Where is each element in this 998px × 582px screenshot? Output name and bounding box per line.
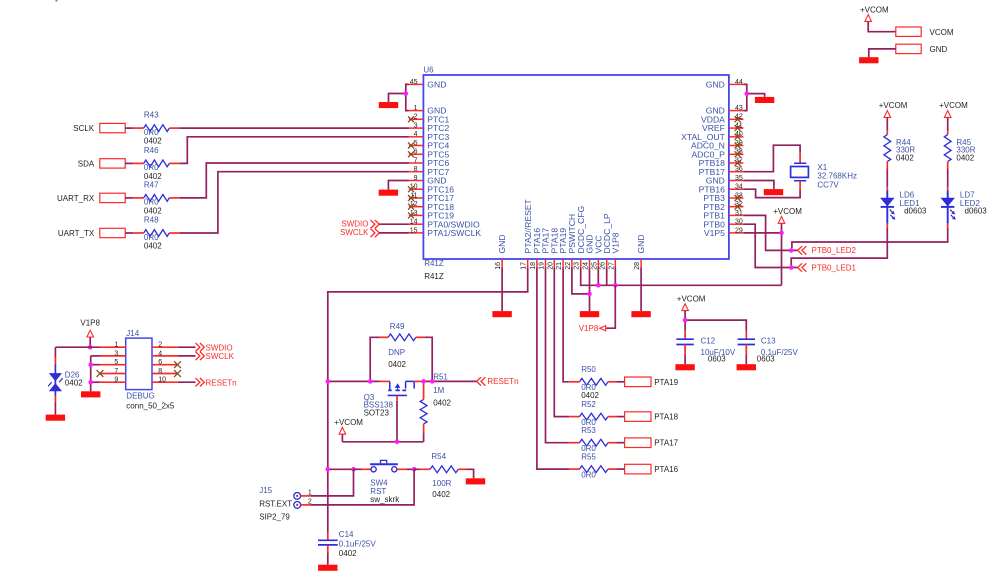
port UART_RX (57, 193, 125, 203)
power symbol +VCOM (Q3) (334, 418, 363, 434)
ground (J14) (81, 391, 100, 397)
svg-text:DNP: DNP (388, 348, 405, 357)
U6 pin 31 PTB1 (703, 210, 743, 221)
svg-text:22: 22 (565, 262, 572, 270)
capacitor C13 0.1uF/25V (738, 331, 799, 365)
U6 pin 23 DCDC_CFG (574, 205, 586, 269)
J15 labels (259, 486, 292, 521)
svg-text:C12: C12 (701, 337, 716, 346)
junction rail/node (326, 379, 331, 384)
U6 pin 32 PTB2 (703, 201, 743, 212)
resistor R54 100R (414, 452, 474, 499)
svg-text:RST.EXT: RST.EXT (259, 499, 292, 508)
svg-text:SWCLK: SWCLK (206, 352, 235, 361)
wire bottom +VCOM rail (pins 23,25,26,27) (581, 268, 782, 286)
J14 pin 6 (152, 359, 178, 366)
U6 pin 25 VCC (591, 235, 603, 269)
resistor R45 330R (944, 135, 975, 163)
power symbol V1P8 (J14) (80, 318, 100, 337)
U6 pin 35 GND (706, 175, 744, 186)
svg-text:9: 9 (414, 175, 418, 182)
svg-text:+VCOM: +VCOM (939, 101, 968, 110)
wire LD7 cathode to PTB0_LED2 (792, 228, 948, 248)
wire +VCOM rail to U6 pin 29 and bottom rail (781, 223, 783, 285)
junction V1P5 (779, 231, 784, 236)
svg-text:PTA1/SWCLK: PTA1/SWCLK (427, 228, 481, 238)
wire U6 pin 16 to ground (501, 268, 503, 312)
speck (55, 0, 57, 2)
wire LD6 cathode to PTB0_LED1 (791, 228, 887, 265)
LED LD7 (941, 187, 987, 229)
svg-text:R41Z: R41Z (424, 272, 444, 281)
svg-text:0603: 0603 (708, 355, 726, 364)
U6 pin 6 PTC5 (408, 149, 449, 160)
svg-text:1M: 1M (433, 386, 444, 395)
svg-text:V1P5: V1P5 (704, 228, 725, 238)
crystal X1 (791, 163, 857, 189)
svg-text:+VCOM: +VCOM (860, 5, 889, 14)
U6 pin 42 VDDA (701, 114, 743, 125)
net label RESETn (Q3 node) (477, 377, 519, 386)
wire U6 pin 22 PSWITCH to pin 24 (572, 268, 590, 294)
junction PTB0_LED2 (789, 248, 794, 253)
ground (U6 pin44/43) (755, 97, 774, 103)
power symbol +VCOM (V1P5 rail) (773, 207, 802, 223)
port PTA19 (625, 377, 679, 387)
svg-text:34: 34 (735, 184, 743, 191)
svg-text:1: 1 (114, 342, 118, 349)
U6 pin 22 PSWITCH (565, 214, 577, 270)
U6 pin 45 GND (409, 79, 447, 90)
svg-text:0402: 0402 (581, 391, 599, 400)
svg-text:V1P8: V1P8 (610, 232, 620, 253)
U6 pin 34 PTB16 (699, 184, 744, 195)
U6 pin 43 GND (706, 105, 744, 116)
U6 pin 40 XTAL_OUT (681, 131, 743, 142)
U6 pin 14 PTA0/SWDIO (409, 219, 480, 230)
svg-text:R41Z: R41Z (424, 259, 444, 268)
svg-text:PTB0_LED1: PTB0_LED1 (812, 263, 857, 272)
net label SWCLK (J14 pin4) (196, 352, 235, 361)
svg-text:d0603: d0603 (965, 207, 988, 216)
U6 pin 29 V1P5 (704, 227, 744, 238)
svg-text:VCOM: VCOM (930, 28, 954, 37)
wire +VCOM to C12/C13 (684, 311, 686, 331)
svg-text:6: 6 (158, 359, 162, 366)
U6 pin 24 GND (583, 234, 595, 269)
net label RESETn (J14 pin10) (196, 378, 237, 387)
wire V1P8 to J14 pin1 row (89, 337, 91, 347)
wire U6 pin 9 to ground (388, 181, 409, 190)
ground (C12) (675, 364, 694, 370)
svg-text:0603: 0603 (757, 355, 775, 364)
svg-text:0402: 0402 (144, 207, 162, 216)
svg-text:16: 16 (495, 262, 502, 270)
resistor R44 330R (884, 135, 915, 163)
svg-text:5: 5 (114, 359, 118, 366)
U6 pin 17 PTA2//RESET (521, 198, 533, 269)
svg-text:0402: 0402 (896, 154, 914, 163)
wire U6 pin 36 to X1 top (743, 145, 800, 172)
svg-text:RESETn: RESETn (206, 378, 237, 387)
junction J14 pin5 (88, 362, 93, 367)
ground (U6 pin 24) (580, 311, 599, 317)
wire U6 pin 35 to ground (743, 181, 774, 190)
svg-text:19: 19 (539, 262, 546, 270)
svg-text:0R0: 0R0 (144, 198, 159, 207)
junction pin22/24 (587, 292, 592, 297)
U6 pin 28 GND (634, 234, 646, 269)
U6 pin 16 GND (495, 234, 507, 269)
svg-text:C13: C13 (761, 337, 776, 346)
svg-text:PTA17: PTA17 (654, 439, 678, 448)
svg-text:8: 8 (158, 368, 162, 375)
svg-text:PTA18: PTA18 (654, 413, 678, 422)
svg-text:27: 27 (608, 262, 615, 270)
svg-text:6: 6 (414, 149, 418, 156)
svg-text:24: 24 (583, 262, 590, 270)
svg-text:0402: 0402 (388, 360, 406, 369)
svg-text:PTA19: PTA19 (654, 378, 678, 387)
svg-text:R50: R50 (581, 365, 596, 374)
svg-text:44: 44 (735, 79, 743, 86)
resistor R50 0R0 (569, 365, 624, 400)
wire SWCLK to U6 pin 15 (379, 232, 409, 234)
svg-text:R52: R52 (581, 400, 596, 409)
svg-text:+VCOM: +VCOM (773, 207, 802, 216)
junction V1P8/pin1 (88, 345, 93, 350)
op IC U6 body (423, 66, 729, 260)
port SCLK (73, 123, 125, 133)
J14 pin 8 (152, 368, 178, 375)
junction R49 left / Q3 (368, 379, 373, 384)
ground (U6 pin 16) (492, 311, 511, 317)
wire R44 to LD6 (886, 162, 888, 169)
resistor R43 (125, 111, 179, 146)
svg-text:25: 25 (591, 262, 598, 270)
svg-text:30: 30 (735, 219, 743, 226)
J14 pin 10 (152, 377, 178, 384)
wire VCOM arrow to port (868, 21, 896, 31)
wire U6 pin 17 RESET rail (328, 268, 528, 533)
no-connect J14 pin 7 (97, 370, 104, 377)
svg-text:21: 21 (556, 262, 563, 270)
wire UART_RX/R47 to U6 pin 7 (180, 163, 409, 198)
LED LD6 (881, 187, 927, 229)
wire U6 pin 28 to ground (640, 268, 642, 312)
ground (top right) (859, 57, 878, 63)
svg-text:GND: GND (706, 80, 725, 90)
junction R49 right (430, 379, 435, 384)
U6 pin 38 ADC0_P (691, 149, 743, 160)
svg-text:GND: GND (427, 80, 446, 90)
junction J15 pin2 (412, 467, 417, 472)
wire U6 pin 24 to ground (589, 268, 591, 312)
svg-text:SOT23: SOT23 (364, 409, 390, 418)
svg-text:V1P8: V1P8 (579, 324, 599, 333)
svg-text:d0603: d0603 (904, 207, 927, 216)
port VCOM (896, 27, 954, 37)
value label R41Z (424, 259, 444, 268)
svg-text:15: 15 (410, 227, 418, 234)
svg-text:10: 10 (158, 377, 166, 384)
wire U6 pin 30 to PTB0_LED1 (743, 224, 797, 267)
connector J15 pin 2 (294, 498, 312, 508)
J14 pin 9 (100, 377, 126, 384)
svg-text:R55: R55 (581, 452, 596, 461)
U6 pin 30 PTB0 (703, 219, 743, 230)
resistor R49 DNP (370, 322, 432, 382)
wire U6 pins 44,43 to ground (743, 84, 746, 110)
U6 pin 27 V1P8 (608, 232, 620, 270)
no-connect J14 pin 8 (174, 370, 181, 377)
junction PTB0_LED1 (789, 265, 794, 270)
svg-text:CC7V: CC7V (817, 180, 839, 189)
svg-text:+VCOM: +VCOM (334, 418, 363, 427)
U6 pin 7 PTC6 (409, 157, 450, 168)
svg-text:conn_50_2x5: conn_50_2x5 (126, 402, 175, 411)
svg-text:J14: J14 (126, 329, 139, 338)
svg-text:7: 7 (114, 368, 118, 375)
U6 pin 9 GND (409, 175, 447, 186)
port PTA16 (625, 464, 679, 474)
ground (U6 pin45/1) (379, 102, 398, 108)
svg-text:0R0: 0R0 (581, 470, 596, 479)
svg-text:GND: GND (636, 234, 646, 253)
svg-text:SDA: SDA (78, 160, 95, 169)
U6 pin 8 PTC7 (409, 166, 450, 177)
net label SWDIO (J14 pin2) (196, 343, 233, 352)
U6 pin 21 PTA19 (556, 228, 568, 270)
port UART_TX (58, 228, 125, 238)
U6 pin 19 PTA17 (539, 228, 551, 270)
svg-text:14: 14 (410, 219, 418, 226)
svg-text:0402: 0402 (144, 242, 162, 251)
U6 pin 2 PTC1 (408, 114, 449, 125)
wire SDA/R46 to U6 pin 4 (180, 137, 409, 164)
svg-text:R51: R51 (433, 373, 448, 382)
svg-text:0402: 0402 (144, 137, 162, 146)
svg-text:0.1uF/25V: 0.1uF/25V (339, 539, 377, 548)
U6 pin 15 PTA1/SWCLK (409, 227, 481, 238)
wire U6 pin 34 to X1 bottom (799, 181, 801, 190)
svg-text:32.768KHz: 32.768KHz (817, 171, 857, 180)
wire Q3 gate to +VCOM row (396, 401, 398, 442)
svg-text:R54: R54 (431, 452, 446, 461)
svg-text:R53: R53 (581, 426, 596, 435)
U6 pin 11 PTC17 (408, 192, 454, 203)
svg-text:R49: R49 (390, 322, 405, 331)
resistor R53 0R0 (569, 426, 624, 453)
svg-text:36: 36 (735, 166, 743, 173)
connector J15 pin 1 (294, 489, 312, 499)
resistor R55 0R0 (569, 452, 624, 479)
U6 pin 33 PTB3 (703, 192, 743, 203)
port PTA17 (625, 438, 679, 448)
junction J14 pin9 (88, 380, 93, 385)
diode D26 TVS (48, 347, 83, 414)
svg-text:17: 17 (521, 262, 528, 270)
junction rail/SW4 row (326, 467, 331, 472)
U6 pin 20 PTA18 (547, 228, 559, 270)
svg-text:U6: U6 (423, 66, 434, 75)
wire J15 pin1 to SW4 row (301, 495, 311, 497)
svg-text:DEBUG: DEBUG (126, 391, 154, 400)
wire U6 PTA17 to R53 (546, 268, 570, 443)
svg-text:3: 3 (114, 350, 118, 357)
wire SWDIO to U6 pin 14 (379, 223, 409, 225)
power symbol +VCOM (C12/C13) (677, 294, 706, 310)
port PTA18 (625, 412, 679, 422)
wire J14 pin1 row to D26 rail (55, 346, 100, 348)
svg-text:J15: J15 (259, 486, 272, 495)
wire UART_TX/R48 to U6 pin 8 (180, 172, 409, 233)
wire rail to SW4 (328, 468, 354, 470)
junction pin 25 (596, 283, 601, 288)
power symbol +VCOM (R45) (939, 101, 968, 117)
U6 pin 5 PTC4 (408, 140, 449, 151)
svg-text:SWDIO: SWDIO (341, 220, 368, 229)
junction J15 pin1 (351, 467, 356, 472)
svg-text:18: 18 (530, 262, 537, 270)
junction pins45-1 (404, 91, 409, 96)
port SDA (78, 159, 125, 169)
svg-text:RESETn: RESETn (487, 377, 518, 386)
power symbol +VCOM (R44) (879, 101, 908, 117)
junction R51 top (421, 379, 426, 384)
svg-text:SCLK: SCLK (73, 124, 95, 133)
U6 pin 41 VREF (702, 123, 743, 134)
wire RESETn node row (328, 380, 380, 382)
U6 pin 37 PTB18 (699, 157, 744, 168)
U6 pin 44 GND (706, 79, 744, 90)
capacitor C14 0.1uF/25V (318, 530, 376, 565)
svg-text:0R0: 0R0 (144, 163, 159, 172)
U6 pin 4 PTC3 (409, 131, 450, 142)
port GND (896, 44, 948, 54)
net label PTB0_LED1 (798, 263, 857, 272)
svg-text:C14: C14 (339, 530, 354, 539)
svg-text:3: 3 (414, 123, 418, 130)
wire +VCOM to R45 (947, 117, 949, 130)
U6 pin 12 PTC18 (408, 201, 454, 212)
wire +VCOM to R44 (886, 117, 888, 130)
svg-text:sw_skrk: sw_skrk (370, 495, 400, 504)
svg-text:8: 8 (414, 166, 418, 173)
ground (R54) (466, 478, 485, 484)
svg-text:0402: 0402 (339, 549, 357, 558)
svg-text:23: 23 (574, 262, 581, 270)
U6 pin 3 PTC2 (409, 123, 450, 134)
svg-text:7: 7 (414, 157, 418, 164)
U6 pin 26 DCDC_LP (600, 213, 612, 270)
svg-text:0402: 0402 (433, 399, 451, 408)
J14 pin 3 (100, 350, 126, 357)
svg-text:43: 43 (735, 105, 743, 112)
svg-text:26: 26 (600, 262, 607, 270)
svg-text:9: 9 (114, 377, 118, 384)
wire U6 pins 45,1 to ground (406, 84, 409, 110)
capacitor C12 10uF/10V (676, 331, 735, 365)
wire U6 PTA16 to R55 (537, 268, 569, 470)
wire GND port to ground (869, 49, 896, 57)
resistor R48 (125, 216, 179, 251)
J14 pin 5 (100, 359, 126, 366)
wire J14 pin10 to RESETn (178, 381, 196, 383)
svg-text:SWCLK: SWCLK (340, 228, 369, 237)
svg-text:31: 31 (735, 210, 743, 217)
svg-text:GND: GND (930, 45, 948, 54)
svg-text:1: 1 (414, 105, 418, 112)
wire +VCOM row (341, 434, 343, 442)
svg-text:+VCOM: +VCOM (879, 101, 908, 110)
svg-text:UART_TX: UART_TX (58, 229, 95, 238)
resistor R47 (125, 181, 179, 216)
svg-text:29: 29 (735, 227, 743, 234)
svg-text:R47: R47 (144, 181, 159, 190)
svg-text:4: 4 (158, 350, 162, 357)
U6 pin 10 PTC16 (408, 184, 454, 195)
junction Q3 gate (395, 440, 400, 445)
J14 labels DEBUG conn_50_2x5 (126, 391, 175, 410)
J14 pin 2 (152, 342, 178, 349)
wire J14 pins 3,5,9 to ground (91, 355, 100, 357)
svg-text:35: 35 (735, 175, 743, 182)
resistor R51 1M (420, 373, 451, 442)
footprint label R41Z (424, 272, 444, 281)
ground (U6 pin 9) (379, 190, 398, 196)
U6 pin 36 PTB17 (699, 166, 744, 177)
svg-text:R46: R46 (144, 146, 159, 155)
wire J15 pin2 to R54 left (301, 504, 311, 506)
wire U6 PTA18 to R52 (554, 268, 569, 417)
ground (C14) (318, 565, 337, 571)
wire U6 pin 31 to PTB0_LED2 (743, 215, 797, 250)
svg-text:R43: R43 (144, 111, 159, 120)
svg-text:UART_RX: UART_RX (57, 194, 95, 203)
svg-text:100R: 100R (432, 479, 451, 488)
svg-text:2: 2 (414, 114, 418, 121)
svg-text:R48: R48 (144, 216, 159, 225)
svg-text:SIP2_79: SIP2_79 (259, 512, 290, 521)
U6 pin 1 GND (409, 105, 447, 116)
svg-text:5: 5 (414, 140, 418, 147)
U6 pin 13 PTC19 (408, 210, 454, 221)
J14 pin 7 (100, 368, 126, 375)
connector J14 body (126, 329, 152, 389)
junction pin 27 (613, 283, 618, 288)
power symbol +VCOM (top right) (860, 5, 889, 21)
svg-text:PTB0_LED2: PTB0_LED2 (812, 246, 857, 255)
switch SW4 RST (354, 460, 415, 504)
svg-text:2: 2 (158, 342, 162, 349)
svg-text:PTA16: PTA16 (654, 465, 678, 474)
net label SWCLK (340, 228, 379, 237)
no-connect J14 pin 6 (174, 361, 181, 368)
transistor Q3 BSS138 (364, 381, 421, 417)
resistor R46 (125, 146, 179, 181)
svg-text:0402: 0402 (432, 490, 450, 499)
svg-text:0R0: 0R0 (144, 128, 159, 137)
ground (U6 pin 28) (631, 311, 650, 317)
svg-text:4: 4 (414, 131, 418, 138)
junction pins44-43 (745, 91, 750, 96)
resistor R52 0R0 (569, 400, 624, 427)
net label V1P8 (606, 285, 616, 328)
wire SCLK/R43 to U6 pin 3 (180, 127, 409, 129)
ground (D26) (46, 415, 65, 421)
ground (C13) (737, 364, 756, 370)
